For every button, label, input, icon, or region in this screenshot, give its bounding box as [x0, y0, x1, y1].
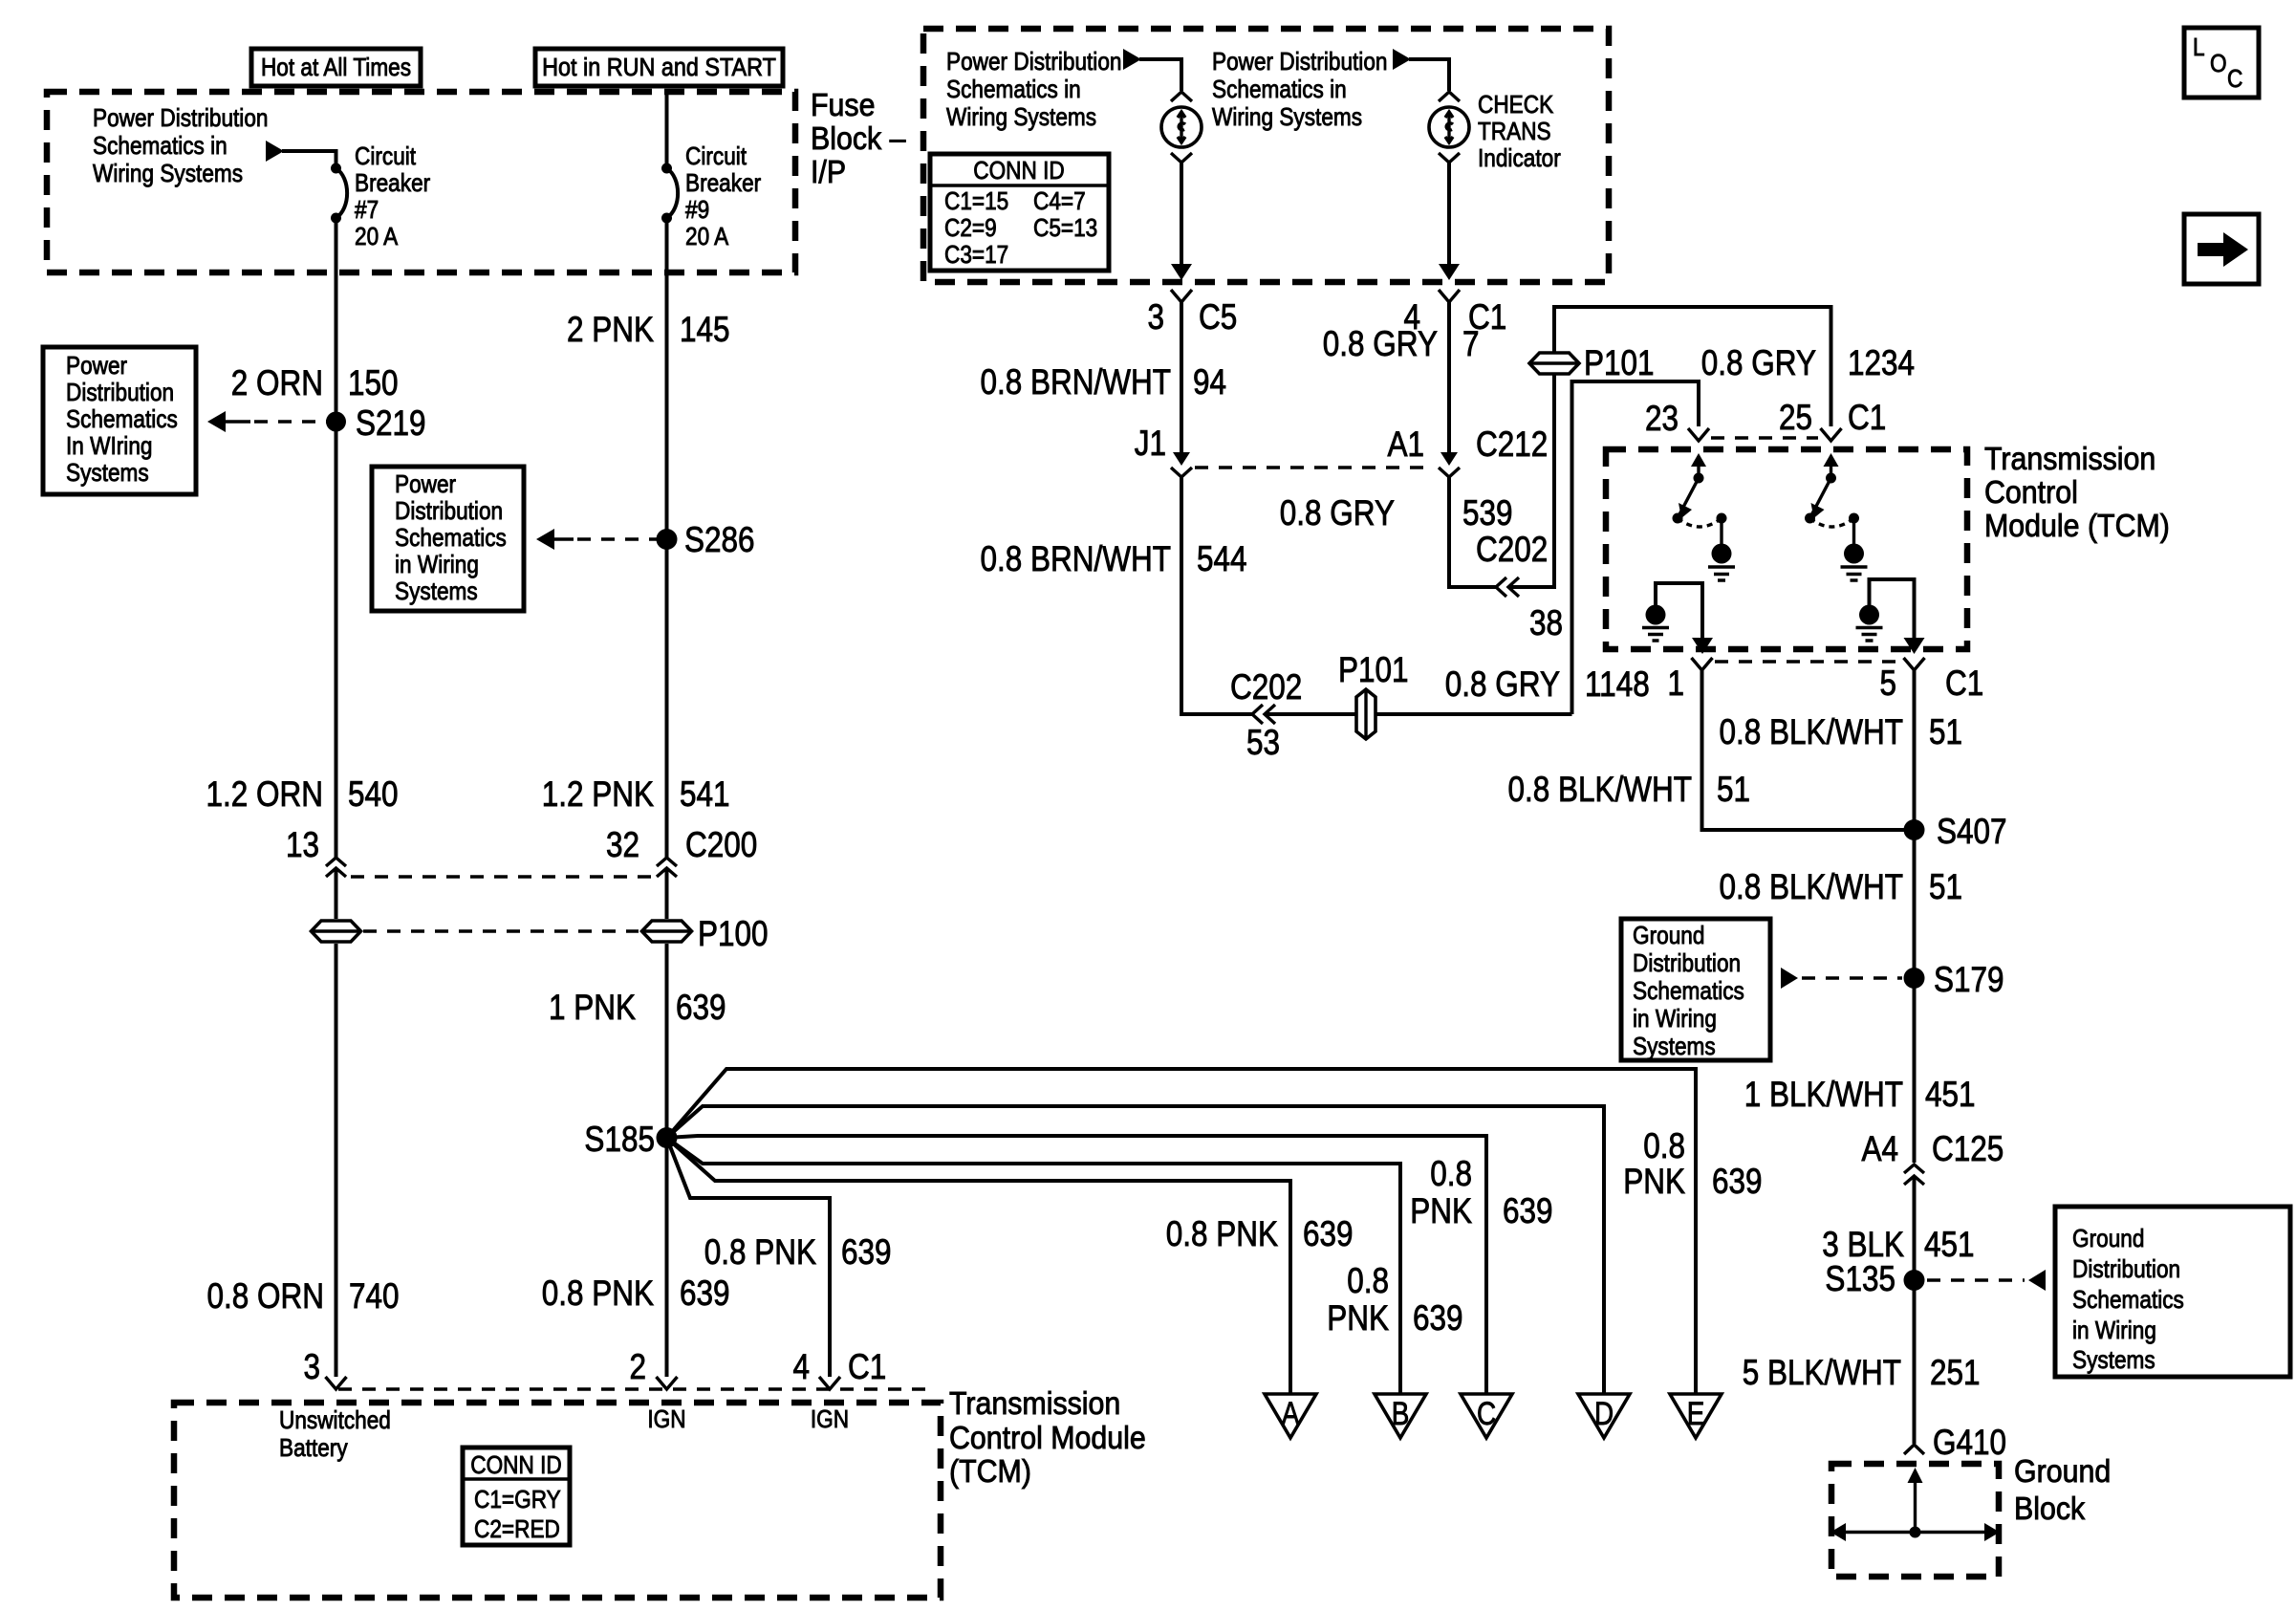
svg-text:Systems: Systems: [66, 460, 149, 488]
svg-text:PNK: PNK: [1327, 1299, 1389, 1339]
svg-text:Distribution: Distribution: [1633, 950, 1741, 978]
svg-text:25: 25: [1779, 399, 1812, 438]
splice S219: [326, 412, 346, 432]
svg-text:Circuit: Circuit: [685, 143, 747, 171]
wire: S185 to triangle D: [667, 1106, 1605, 1394]
svg-text:0.8: 0.8: [1430, 1155, 1472, 1194]
svg-text:P101: P101: [1338, 651, 1409, 690]
splice S185: [657, 1127, 678, 1148]
splice S179: [1904, 968, 1925, 989]
svg-text:C5=13: C5=13: [1033, 215, 1097, 243]
switch 2 dashed throw arc: [1810, 518, 1854, 527]
svg-text:639: 639: [1503, 1192, 1553, 1231]
module label: Transmission Control Module (TCM) bottom: [949, 1385, 1146, 1489]
svg-text:150: 150: [348, 364, 399, 403]
svg-text:In WIring: In WIring: [66, 433, 152, 461]
label: 0.8 BRN/WHT 94: [980, 363, 1226, 403]
label: Unswitched Battery: [279, 1407, 391, 1463]
TCM switch dashed box: [1606, 449, 1967, 649]
svg-text:C: C: [2227, 66, 2242, 94]
connector C202 chevrons (lower): [1252, 705, 1275, 724]
svg-text:0.8 BLK/WHT: 0.8 BLK/WHT: [1719, 868, 1903, 907]
switch 2 moving arm: [1805, 478, 1831, 524]
connector chevron TCM pin 4: [819, 1377, 840, 1389]
grommet P100 dashed tie line: [363, 929, 639, 932]
note box: Ground Distribution Schematics in Wiring Systems (right): [2055, 1207, 2290, 1377]
connector chevron TCM pin 2: [657, 1377, 678, 1389]
wire: S185 to triangle A: [667, 1138, 1291, 1394]
svg-text:13: 13: [286, 826, 319, 865]
instrument cluster dashed box: [923, 29, 1609, 282]
wire: riser top run to pin 25: [1554, 307, 1831, 426]
svg-text:2 ORN: 2 ORN: [231, 364, 323, 403]
wire: 0.8 ORN 740 down to TCM pin 3: [335, 944, 338, 1377]
page-arrow legend box: [2184, 214, 2259, 284]
connector C212 dashed tie line: [1195, 466, 1434, 468]
svg-text:Distribution: Distribution: [395, 498, 503, 526]
label: 1 BLK/WHT 451: [1744, 1076, 1976, 1115]
note: Power Distribution Schematics in Wiring Systems (fuse box): [93, 105, 268, 188]
svg-text:Unswitched: Unswitched: [279, 1407, 391, 1435]
wire: 2 PNK 145 from CB9 down: [665, 218, 669, 858]
grommet P100 on wire A: [312, 921, 361, 942]
label: 0.8 GRY 539: [1280, 494, 1513, 533]
svg-text:C4=7: C4=7: [1033, 188, 1086, 216]
label: Circuit Breaker #7 20 A: [355, 143, 430, 251]
label: 0.8 BLK/WHT 51 (pin5): [1719, 713, 1962, 752]
svg-text:Power Distribution: Power Distribution: [946, 49, 1121, 76]
svg-text:740: 740: [349, 1277, 400, 1317]
svg-text:#7: #7: [355, 197, 379, 225]
svg-text:C1: C1: [1945, 664, 1983, 704]
wire: 1.2 PNK below C200: [665, 869, 669, 919]
svg-text:0.8: 0.8: [1643, 1127, 1685, 1166]
svg-text:Schematics in: Schematics in: [93, 133, 227, 161]
svg-text:C202: C202: [1476, 531, 1548, 570]
wire: C202 to P101 (lower): [1267, 712, 1572, 716]
svg-text:Battery: Battery: [279, 1435, 348, 1463]
svg-text:Circuit: Circuit: [355, 143, 416, 171]
svg-text:Breaker: Breaker: [685, 170, 761, 198]
svg-text:O: O: [2210, 51, 2227, 78]
note box: Power Distribution Schematics in Wiring Systems (mid-left): [372, 467, 524, 611]
svg-text:IGN: IGN: [647, 1406, 685, 1434]
splice S135: [1904, 1270, 1925, 1291]
switch 2 fixed contact to ground: [1841, 513, 1868, 581]
off-page triangle D: [1578, 1394, 1630, 1438]
svg-text:Control: Control: [1984, 474, 2078, 510]
wire: 2 ORN 150 from CB7 down to S219: [335, 218, 338, 858]
ground bus symbol inside ground block: [1830, 1468, 2000, 1541]
connector exit chevron pin 3 C5: [1171, 290, 1192, 302]
svg-text:1234: 1234: [1848, 344, 1915, 383]
svg-text:B: B: [1392, 1395, 1410, 1431]
svg-text:Ground: Ground: [2072, 1226, 2144, 1253]
svg-text:Wiring Systems: Wiring Systems: [93, 161, 243, 188]
label: 1.2 PNK 541: [542, 775, 730, 815]
svg-text:5: 5: [1879, 664, 1896, 704]
label: 4 | C1: [1403, 298, 1506, 337]
indicator lamp 1: [1161, 107, 1202, 147]
svg-text:Power Distribution: Power Distribution: [93, 105, 268, 133]
wire: C202 to P101 riser: [1510, 344, 1554, 587]
arrow into circuit breaker 7: [266, 141, 284, 162]
svg-text:D: D: [1594, 1395, 1614, 1431]
switch 1 input arrow: [1691, 453, 1706, 484]
svg-text:Wiring Systems: Wiring Systems: [946, 104, 1096, 132]
svg-text:0.8 GRY: 0.8 GRY: [1280, 494, 1395, 533]
label: 0.8 PNK 639 (column E): [1623, 1127, 1762, 1202]
arrow: lamp 2 wire exits cluster: [1439, 264, 1460, 280]
svg-text:1 BLK/WHT: 1 BLK/WHT: [1744, 1076, 1903, 1115]
grommet P101 (upper) on riser: [1529, 353, 1579, 374]
svg-text:Hot in RUN and START: Hot in RUN and START: [542, 54, 776, 81]
note box: Ground Distribution Schematics in Wiring Systems (left): [1621, 919, 1770, 1060]
dashed reference arrow from S219 to note box: [207, 411, 330, 432]
svg-text:C125: C125: [1932, 1130, 2004, 1169]
svg-text:1148: 1148: [1585, 665, 1650, 705]
svg-text:L: L: [2193, 34, 2205, 62]
svg-text:I/P: I/P: [811, 154, 846, 189]
label: 2 PNK 145: [567, 311, 730, 350]
svg-text:Distribution: Distribution: [2072, 1256, 2180, 1284]
off-page triangle B: [1375, 1394, 1426, 1438]
svg-text:Ground: Ground: [2014, 1453, 2111, 1489]
connector chevron pin 25: [1821, 428, 1842, 441]
circuit breaker #7 20A: [331, 163, 347, 224]
svg-text:451: 451: [1924, 1226, 1975, 1265]
wire: 0.8 BRN/WHT 94: [1180, 300, 1183, 453]
svg-text:5 BLK/WHT: 5 BLK/WHT: [1743, 1354, 1901, 1393]
svg-text:Schematics: Schematics: [395, 525, 507, 553]
connector C202 chevrons (upper): [1496, 577, 1519, 597]
svg-text:#9: #9: [685, 197, 709, 225]
svg-text:A: A: [1282, 1395, 1300, 1431]
svg-text:639: 639: [841, 1233, 892, 1273]
svg-text:C1=15: C1=15: [944, 188, 1008, 216]
connector C1 dashed tie line (bottom TCM): [338, 1387, 932, 1390]
svg-text:7: 7: [1462, 325, 1480, 364]
wire: feed into breaker 9: [665, 92, 669, 168]
internal ground 2 to pin 5: [1856, 579, 1925, 654]
label: 0.8 PNK 639 (column C): [1410, 1155, 1552, 1231]
label: 0.8 GRY 1234: [1701, 344, 1915, 383]
label: 1 PNK 639: [549, 989, 726, 1028]
dashed reference arrow from S135: [1927, 1270, 2046, 1291]
connector C1 dashed tie line (TCM top): [1711, 436, 1818, 439]
note box: Power Distribution Schematics In Wiring Systems (left): [43, 347, 196, 494]
label: 0.8 GRY 7: [1323, 325, 1480, 364]
connector C125 chevrons: [1904, 1165, 1924, 1185]
arrow: lamp 1 wire exits cluster: [1171, 264, 1192, 280]
lamp 1 terminal chevron upper: [1171, 92, 1192, 101]
svg-text:P101: P101: [1584, 344, 1655, 383]
svg-text:451: 451: [1925, 1076, 1976, 1115]
svg-text:in Wiring: in Wiring: [1633, 1006, 1717, 1034]
svg-text:639: 639: [1303, 1215, 1354, 1254]
circuit breaker #9 20A: [661, 163, 678, 224]
label: 0.8 ORN 740: [206, 1277, 399, 1317]
svg-text:Systems: Systems: [2072, 1347, 2155, 1375]
svg-text:51: 51: [1929, 868, 1962, 907]
svg-text:0.8 ORN: 0.8 ORN: [206, 1277, 324, 1317]
label: 0.8 BLK/WHT 51 (pin1): [1507, 771, 1750, 810]
module label: Ground Block: [2014, 1453, 2111, 1526]
dashed reference arrow from S286 to note box: [536, 529, 660, 550]
svg-text:Systems: Systems: [395, 578, 478, 606]
label: 3 BLK 451: [1822, 1226, 1974, 1265]
svg-text:TRANS: TRANS: [1478, 119, 1551, 146]
svg-text:53: 53: [1246, 724, 1280, 763]
svg-text:Distribution: Distribution: [66, 380, 174, 407]
wire: 0.8 BRN/WHT 544 down and right to C202: [1181, 477, 1254, 714]
wire: S185 to triangle C: [667, 1136, 1487, 1394]
svg-text:2 PNK: 2 PNK: [567, 311, 654, 350]
arrow into lamp 1 feed: [1123, 49, 1141, 70]
svg-text:20 A: 20 A: [355, 224, 399, 251]
svg-text:0.8 GRY: 0.8 GRY: [1445, 665, 1560, 705]
svg-text:S286: S286: [684, 521, 755, 560]
svg-text:Schematics: Schematics: [2072, 1287, 2184, 1315]
svg-text:Transmission: Transmission: [1984, 441, 2155, 476]
svg-text:Schematics in: Schematics in: [1212, 76, 1347, 104]
svg-text:0.8 BRN/WHT: 0.8 BRN/WHT: [980, 363, 1171, 403]
label: 1.2 ORN 540: [206, 775, 398, 815]
svg-text:639: 639: [676, 989, 726, 1028]
svg-text:C3=17: C3=17: [944, 242, 1008, 270]
svg-text:S135: S135: [1825, 1260, 1895, 1299]
connector C1 dashed tie line (TCM bottom): [1715, 660, 1901, 663]
svg-text:1: 1: [1667, 664, 1684, 704]
wire: 1.2 ORN below C200: [335, 869, 338, 919]
svg-text:S407: S407: [1937, 813, 2007, 852]
wire: arrow to breaker 7: [282, 151, 336, 168]
arrow into lamp 2 feed: [1393, 49, 1411, 70]
wire: 0.8 GRY 7: [1447, 300, 1451, 453]
wire: 1 PNK 639 down to S185: [665, 944, 669, 1138]
lamp 1 terminal chevron lower: [1171, 153, 1192, 163]
svg-text:CONN ID: CONN ID: [973, 158, 1064, 185]
svg-text:C202: C202: [1230, 668, 1302, 708]
svg-text:S219: S219: [356, 404, 426, 444]
svg-text:3 BLK: 3 BLK: [1822, 1226, 1904, 1265]
indicator lamp 2 (CHECK TRANS): [1429, 107, 1469, 147]
svg-text:C2=9: C2=9: [944, 215, 997, 243]
svg-text:Hot at All Times: Hot at All Times: [261, 54, 411, 82]
svg-text:51: 51: [1717, 771, 1750, 810]
svg-text:P100: P100: [698, 915, 769, 954]
label: 0.8 BRN/WHT 544: [980, 540, 1246, 579]
connector C200 chevrons on wire A: [326, 858, 346, 877]
CONN ID table (TCM): [463, 1448, 570, 1545]
internal ground 1 to pin 1: [1642, 583, 1713, 654]
connector chevron TCM pin 3: [326, 1377, 347, 1389]
label: 5 BLK/WHT 251: [1743, 1354, 1981, 1393]
wire: 0.8 GRY 539 down to C202 row: [1449, 477, 1498, 587]
splice S286: [657, 529, 678, 550]
CONN ID table (cluster): [930, 154, 1109, 271]
svg-text:Control Module: Control Module: [949, 1420, 1146, 1455]
svg-text:1 PNK: 1 PNK: [549, 989, 636, 1028]
svg-text:0.8 PNK: 0.8 PNK: [704, 1233, 816, 1273]
switch 2 input arrow: [1824, 453, 1839, 484]
svg-text:J1: J1: [1135, 425, 1166, 464]
svg-text:2: 2: [629, 1348, 646, 1387]
svg-text:Block: Block: [2014, 1491, 2085, 1526]
connector chevron G410: [1904, 1445, 1924, 1454]
svg-text:C1: C1: [1848, 399, 1886, 438]
grommet P100 on wire B: [642, 921, 692, 942]
svg-text:4: 4: [792, 1348, 810, 1387]
label: Circuit Breaker #9 20 A: [685, 143, 761, 251]
svg-text:C212: C212: [1476, 425, 1548, 465]
svg-text:32: 32: [606, 826, 639, 865]
svg-text:Wiring Systems: Wiring Systems: [1212, 104, 1362, 132]
wire: pin 1 to S407: [1702, 668, 1915, 830]
svg-text:Power: Power: [395, 471, 456, 499]
connector J1 arrow and chevron: [1171, 452, 1192, 477]
splice S407: [1904, 819, 1925, 840]
svg-text:A1: A1: [1387, 425, 1424, 465]
header box: Hot at All Times: [251, 49, 421, 86]
svg-text:0.8 GRY: 0.8 GRY: [1323, 325, 1438, 364]
connector exit chevron pin 4 C1: [1439, 290, 1460, 302]
switch 1 moving arm: [1673, 478, 1700, 524]
svg-text:Module (TCM): Module (TCM): [1984, 508, 2170, 543]
svg-text:0.8: 0.8: [1347, 1262, 1389, 1301]
label: 0.8 BLK/WHT 51 (below S407): [1719, 868, 1962, 907]
svg-text:G410: G410: [1933, 1424, 2006, 1463]
svg-text:20 A: 20 A: [685, 224, 729, 251]
svg-text:145: 145: [680, 311, 730, 350]
connector chevron pin 23: [1688, 428, 1709, 441]
svg-text:C1: C1: [848, 1348, 886, 1387]
svg-text:94: 94: [1193, 363, 1226, 403]
svg-text:Transmission: Transmission: [949, 1385, 1120, 1421]
svg-text:in Wiring: in Wiring: [2072, 1317, 2156, 1345]
wire: pin 5 down ground trunk: [1913, 668, 1917, 1163]
svg-text:0.8 BRN/WHT: 0.8 BRN/WHT: [980, 540, 1171, 579]
svg-text:Block –: Block –: [811, 120, 906, 156]
svg-text:3: 3: [1147, 298, 1164, 337]
lamp 2 terminal chevron upper: [1439, 92, 1460, 101]
svg-text:38: 38: [1529, 604, 1563, 643]
label: 2 ORN 150: [231, 364, 399, 403]
svg-text:0.8 PNK: 0.8 PNK: [1166, 1215, 1278, 1254]
svg-text:0.8 GRY: 0.8 GRY: [1701, 344, 1816, 383]
svg-text:in Wiring: in Wiring: [395, 552, 479, 579]
svg-text:Systems: Systems: [1633, 1034, 1716, 1061]
wire: S185 to triangle B: [667, 1138, 1401, 1394]
wire: inner loop to pin 23: [1572, 381, 1700, 714]
svg-text:Power Distribution: Power Distribution: [1212, 49, 1387, 76]
label: 0.8 PNK 639 (column pin4): [704, 1233, 892, 1273]
svg-text:IGN: IGN: [811, 1406, 849, 1434]
svg-text:Breaker: Breaker: [355, 170, 430, 198]
switch 1 fixed contact to ground: [1708, 513, 1735, 581]
svg-text:251: 251: [1930, 1354, 1981, 1393]
wire: lamp 2 down to connector C1: [1447, 163, 1451, 267]
wire: lamp 1 down to connector C5: [1180, 163, 1183, 267]
svg-text:Indicator: Indicator: [1478, 145, 1561, 173]
svg-text:0.8 BLK/WHT: 0.8 BLK/WHT: [1719, 713, 1903, 752]
module label: Transmission Control Module (TCM) right: [1984, 441, 2170, 543]
svg-text:CONN ID: CONN ID: [470, 1452, 561, 1480]
off-page triangle E: [1670, 1394, 1722, 1438]
svg-text:C1=GRY: C1=GRY: [474, 1487, 561, 1514]
svg-text:S185: S185: [584, 1121, 655, 1160]
svg-text:51: 51: [1929, 713, 1962, 752]
svg-text:1.2 ORN: 1.2 ORN: [206, 775, 323, 815]
label: 0.8 PNK 639 (wire B lower): [542, 1274, 730, 1314]
wire: feed to lamp 1: [1139, 59, 1181, 91]
module label: Fuse Block - I/P: [811, 87, 906, 189]
svg-text:PNK: PNK: [1623, 1163, 1685, 1202]
connector C200 chevrons on wire B: [657, 858, 677, 877]
fuse block dashed box: [47, 92, 795, 272]
note: Power Distribution Schematics in Wiring Systems (cluster right): [1212, 49, 1387, 132]
label: 0.8 PNK 639 (column B): [1327, 1262, 1462, 1339]
svg-text:539: 539: [1462, 494, 1513, 533]
connector chevron pin 1: [1692, 658, 1713, 670]
svg-text:C: C: [1477, 1395, 1496, 1431]
svg-text:C2=RED: C2=RED: [474, 1516, 560, 1544]
svg-text:E: E: [1687, 1395, 1705, 1431]
label: 3 | C5: [1147, 298, 1237, 337]
ground block dashed box: [1831, 1464, 1999, 1577]
svg-text:1.2 PNK: 1.2 PNK: [542, 775, 654, 815]
lamp 2 terminal chevron lower: [1439, 153, 1460, 163]
wire: S185 to TCM pin 2: [665, 1138, 669, 1377]
svg-text:Fuse: Fuse: [811, 87, 875, 122]
connector C212 arrow and chevron: [1439, 452, 1460, 477]
svg-text:Power: Power: [66, 353, 127, 381]
svg-text:CHECK: CHECK: [1478, 92, 1553, 120]
svg-text:(TCM): (TCM): [949, 1453, 1031, 1489]
grommet P101 (lower): [1356, 689, 1375, 739]
svg-text:Ground: Ground: [1633, 923, 1704, 950]
svg-text:Schematics: Schematics: [1633, 978, 1744, 1006]
label: 0.8 PNK 639 (column A): [1166, 1215, 1354, 1254]
header box: Hot in RUN and START: [535, 49, 783, 86]
TCM module dashed box: [174, 1403, 941, 1598]
svg-text:639: 639: [680, 1274, 730, 1314]
svg-text:C5: C5: [1199, 298, 1237, 337]
svg-text:S179: S179: [1934, 961, 2004, 1000]
LOC legend box: [2184, 28, 2259, 98]
off-page triangle A: [1265, 1394, 1316, 1438]
label: CHECK TRANS Indicator: [1478, 92, 1561, 173]
svg-text:3: 3: [303, 1348, 320, 1387]
svg-text:A4: A4: [1861, 1130, 1898, 1169]
dashed reference arrow to S179: [1781, 968, 1902, 989]
wire: feed to lamp 2: [1409, 59, 1449, 91]
svg-text:540: 540: [348, 775, 399, 815]
wire: 3 BLK 451 below C125: [1913, 1177, 1917, 1444]
svg-text:C200: C200: [685, 826, 757, 865]
note: Power Distribution Schematics in Wiring Systems (cluster left): [946, 49, 1121, 132]
off-page triangle C: [1461, 1394, 1512, 1438]
svg-text:Schematics in: Schematics in: [946, 76, 1081, 104]
svg-text:23: 23: [1645, 400, 1679, 439]
svg-text:Schematics: Schematics: [66, 406, 178, 434]
svg-text:0.8 PNK: 0.8 PNK: [542, 1274, 654, 1314]
svg-text:PNK: PNK: [1410, 1192, 1472, 1231]
svg-text:544: 544: [1197, 540, 1247, 579]
wire: S185 to triangle E: [667, 1069, 1697, 1394]
wire: S185 to TCM pin 4: [667, 1138, 831, 1377]
svg-text:639: 639: [1712, 1163, 1763, 1202]
